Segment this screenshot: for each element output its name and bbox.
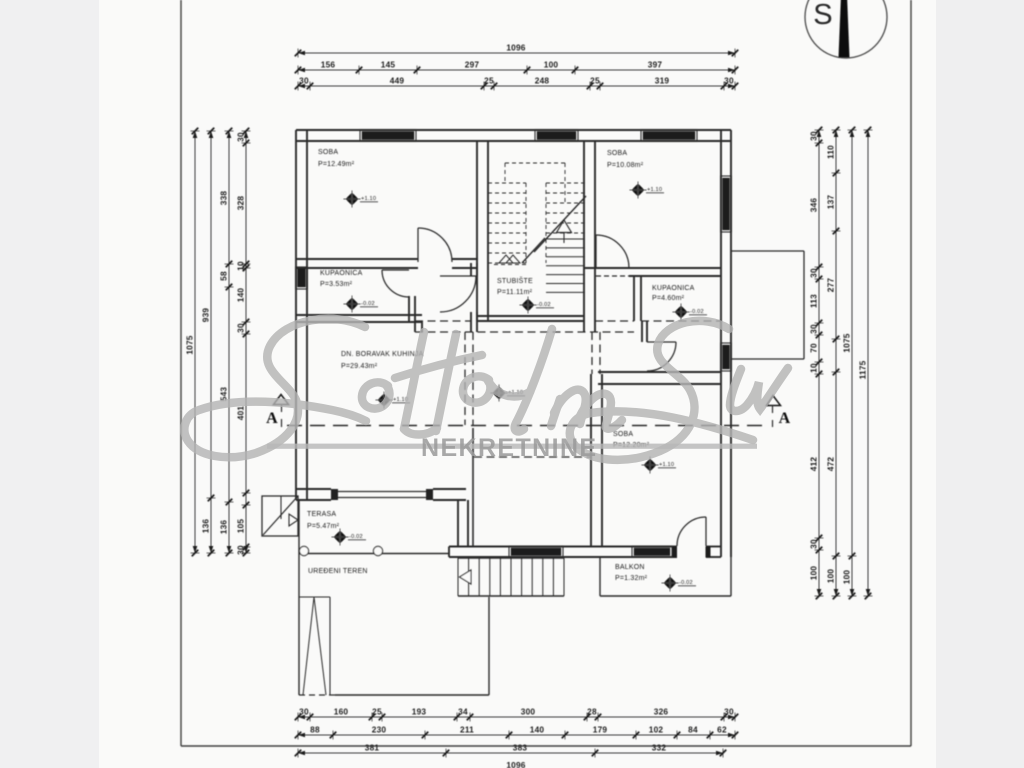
svg-text:25: 25 — [590, 76, 600, 86]
svg-text:193: 193 — [412, 707, 427, 717]
svg-text:30: 30 — [235, 545, 245, 555]
svg-text:136: 136 — [200, 519, 210, 534]
svg-text:140: 140 — [235, 288, 245, 303]
svg-text:939: 939 — [200, 308, 210, 323]
svg-text:P=11.11m²: P=11.11m² — [497, 289, 533, 296]
svg-text:346: 346 — [808, 198, 818, 213]
svg-text:KUPAONICA: KUPAONICA — [652, 285, 695, 292]
svg-text:A: A — [779, 410, 791, 427]
svg-text:332: 332 — [652, 743, 667, 753]
svg-text:30: 30 — [724, 707, 734, 717]
svg-text:10: 10 — [808, 363, 818, 373]
svg-text:34: 34 — [458, 707, 468, 717]
svg-text:+1.10: +1.10 — [659, 462, 674, 468]
svg-text:136: 136 — [218, 520, 228, 535]
svg-text:-0.02: -0.02 — [690, 309, 704, 315]
svg-text:25: 25 — [484, 76, 494, 86]
svg-text:KUPAONICA: KUPAONICA — [320, 270, 363, 277]
svg-text:P=29.43m²: P=29.43m² — [341, 363, 378, 370]
svg-text:137: 137 — [825, 195, 835, 210]
svg-text:326: 326 — [654, 707, 669, 717]
svg-text:300: 300 — [521, 707, 536, 717]
svg-text:P=12.49m²: P=12.49m² — [318, 161, 355, 168]
svg-text:412: 412 — [808, 457, 818, 472]
svg-text:S: S — [813, 0, 833, 31]
svg-text:30: 30 — [808, 268, 818, 278]
svg-text:1096: 1096 — [506, 760, 525, 768]
svg-text:1175: 1175 — [857, 360, 867, 379]
svg-text:SOBA: SOBA — [607, 150, 627, 157]
svg-text:248: 248 — [535, 76, 550, 86]
svg-text:DN. BORAVAK KUHINJA: DN. BORAVAK KUHINJA — [341, 351, 424, 358]
svg-text:-0.02: -0.02 — [537, 302, 551, 308]
svg-text:30: 30 — [808, 131, 818, 141]
svg-text:145: 145 — [381, 60, 396, 70]
svg-text:84: 84 — [688, 725, 698, 735]
svg-text:28: 28 — [587, 707, 597, 717]
svg-text:TERASA: TERASA — [307, 511, 336, 518]
svg-text:1075: 1075 — [841, 333, 851, 352]
svg-text:100: 100 — [825, 569, 835, 584]
svg-text:P=10.08m²: P=10.08m² — [607, 162, 644, 169]
svg-text:30: 30 — [299, 76, 309, 86]
svg-text:383: 383 — [513, 743, 528, 753]
svg-text:25: 25 — [372, 707, 382, 717]
svg-text:+1.10: +1.10 — [361, 196, 376, 202]
svg-text:338: 338 — [218, 191, 228, 206]
svg-text:1096: 1096 — [506, 43, 525, 53]
svg-text:179: 179 — [593, 725, 608, 735]
svg-text:113: 113 — [808, 294, 818, 308]
svg-text:P=5.47m²: P=5.47m² — [307, 523, 340, 530]
svg-text:105: 105 — [235, 519, 245, 534]
svg-text:100: 100 — [841, 570, 851, 585]
svg-text:A: A — [266, 410, 278, 427]
svg-text:30: 30 — [808, 539, 818, 549]
svg-text:58: 58 — [218, 271, 228, 281]
svg-text:381: 381 — [365, 743, 380, 753]
svg-text:UREĐENI TEREN: UREĐENI TEREN — [308, 568, 368, 575]
svg-text:NEKRETNINE: NEKRETNINE — [421, 434, 598, 462]
svg-text:62: 62 — [717, 725, 727, 735]
svg-text:277: 277 — [825, 278, 835, 293]
svg-text:319: 319 — [655, 76, 670, 86]
svg-text:543: 543 — [218, 387, 228, 402]
svg-text:472: 472 — [825, 457, 835, 472]
svg-text:-0.02: -0.02 — [361, 301, 375, 307]
svg-text:100: 100 — [808, 566, 818, 581]
svg-text:160: 160 — [334, 707, 349, 717]
svg-text:328: 328 — [235, 196, 245, 211]
svg-text:P=1.32m²: P=1.32m² — [615, 575, 648, 582]
svg-text:230: 230 — [372, 725, 387, 735]
svg-text:P=3.53m²: P=3.53m² — [320, 281, 353, 288]
svg-text:88: 88 — [310, 725, 320, 735]
svg-text:30: 30 — [808, 324, 818, 334]
svg-text:SOBA: SOBA — [613, 431, 633, 438]
svg-text:70: 70 — [808, 343, 818, 353]
svg-text:140: 140 — [530, 725, 545, 735]
svg-text:SOBA: SOBA — [318, 149, 338, 156]
svg-text:156: 156 — [321, 60, 336, 70]
svg-text:+1.10: +1.10 — [647, 187, 662, 193]
svg-text:30: 30 — [299, 707, 309, 717]
svg-text:30: 30 — [235, 323, 245, 333]
svg-text:401: 401 — [235, 406, 245, 421]
svg-text:1075: 1075 — [184, 335, 194, 354]
svg-text:10: 10 — [235, 261, 245, 271]
svg-text:-0.02: -0.02 — [349, 534, 363, 540]
svg-text:102: 102 — [649, 725, 664, 735]
svg-text:30: 30 — [724, 76, 734, 86]
svg-text:30: 30 — [235, 132, 245, 142]
svg-text:STUBIŠTE: STUBIŠTE — [497, 276, 533, 285]
svg-text:211: 211 — [460, 725, 474, 735]
svg-text:110: 110 — [825, 145, 835, 159]
svg-text:100: 100 — [544, 60, 559, 70]
svg-text:397: 397 — [648, 60, 663, 70]
svg-text:BALKON: BALKON — [615, 564, 645, 571]
svg-text:449: 449 — [390, 76, 405, 86]
svg-text:P=4.60m²: P=4.60m² — [652, 295, 685, 302]
svg-text:297: 297 — [465, 60, 480, 70]
svg-text:-0.02: -0.02 — [679, 580, 693, 586]
